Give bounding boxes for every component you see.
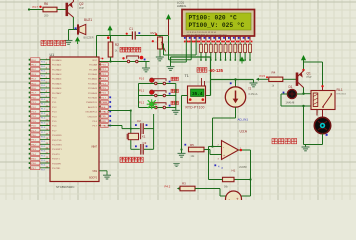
fan motor — [314, 117, 330, 133]
ground RV1 — [156, 57, 164, 61]
svg-text:P1.7: P1.7 — [52, 130, 57, 132]
svg-text:P1.4: P1.4 — [31, 116, 36, 118]
svg-text:P1.5: P1.5 — [52, 121, 57, 123]
svg-text:P1.5: P1.5 — [31, 121, 36, 123]
svg-text:Q2: Q2 — [79, 2, 84, 6]
wire XTAL2 to crystal rail — [108, 125, 122, 127]
U1 AT89C52 body — [50, 57, 99, 182]
power arrow VCC reset rail — [107, 25, 112, 30]
buttons right rail — [175, 84, 177, 111]
wire VCC down to rail — [168, 19, 170, 36]
probe left of D1 — [283, 92, 285, 94]
svg-text:P1.4: P1.4 — [52, 116, 57, 118]
wire T1 right leg — [206, 95, 211, 97]
svg-text:P0.4: P0.4 — [41, 80, 45, 82]
relay top pin — [322, 87, 324, 91]
svg-text:P0.5: P0.5 — [31, 83, 36, 85]
probe near R5 — [184, 144, 186, 146]
U1 left pins with net labels — [29, 58, 63, 172]
svg-text:P0.1: P0.1 — [41, 66, 45, 68]
svg-text:P0.4: P0.4 — [31, 79, 36, 81]
svg-text:P3.4: P3.4 — [41, 155, 45, 157]
svg-text:P0.5/AD5: P0.5/AD5 — [52, 82, 62, 85]
svg-text:P1.3: P1.3 — [31, 112, 36, 114]
svg-text:VBAT: VBAT — [91, 146, 97, 149]
svg-text:P0.6/AD6: P0.6/AD6 — [52, 87, 62, 90]
svg-text:I1: I1 — [249, 86, 252, 90]
svg-text:P3.6: P3.6 — [93, 121, 98, 123]
svg-text:P2.2: P2.2 — [101, 74, 106, 76]
svg-text:P0.3: P0.3 — [41, 75, 45, 77]
svg-text:P2.5/A13: P2.5/A13 — [88, 87, 98, 90]
svg-text:P0.7/AD7: P0.7/AD7 — [52, 92, 62, 95]
svg-text:STC89C51RC: STC89C51RC — [56, 185, 74, 189]
svg-text:ALE: ALE — [101, 106, 106, 109]
voltage probe dots on reset row — [102, 58, 104, 60]
wire T1 left leg down to R5 — [182, 95, 188, 97]
svg-text:XTAL2: XTAL2 — [101, 125, 108, 128]
ground buttons — [172, 110, 180, 114]
svg-text:U3:A: U3:A — [240, 130, 248, 134]
svg-text:P0.7: P0.7 — [41, 94, 45, 96]
svg-text:P3.7: P3.7 — [33, 5, 39, 9]
svg-text:P2.7: P2.7 — [101, 97, 106, 99]
svg-text:BUZ1: BUZ1 — [84, 18, 92, 22]
resistor R6 — [43, 7, 57, 12]
svg-text:P3.1/TXD: P3.1/TXD — [52, 140, 62, 142]
svg-text:D1: D1 — [289, 85, 293, 89]
svg-text:TXD: TXD — [101, 116, 106, 118]
voltage probe above R2 — [107, 36, 110, 39]
U1 right pins with net label boxes — [85, 58, 111, 128]
wire VCC to Q1 emitter — [303, 60, 305, 71]
svg-text:PSEN: PSEN — [101, 102, 107, 104]
svg-text:P2.0: P2.0 — [101, 65, 106, 67]
svg-text:P3.4: P3.4 — [31, 154, 36, 156]
svg-text:P0.6: P0.6 — [41, 90, 45, 92]
svg-text:P2.2/A10: P2.2/A10 — [88, 73, 98, 76]
wire fan bottom — [322, 134, 324, 145]
svg-text:P3.6: P3.6 — [31, 163, 36, 165]
svg-text:P1.3: P1.3 — [52, 112, 57, 114]
svg-text:XTAL1: XTAL1 — [101, 111, 108, 114]
svg-text:P3.5: P3.5 — [41, 160, 45, 162]
temperature range label (red) — [197, 68, 207, 73]
ground relay/fan — [305, 145, 307, 147]
svg-text:T1: T1 — [185, 74, 189, 78]
svg-text:P1.7: P1.7 — [41, 132, 45, 134]
pot RV1 — [159, 36, 161, 38]
current source I1 — [235, 80, 237, 87]
crystal right rail — [153, 114, 155, 149]
push button reset — [127, 56, 139, 63]
net arrow P4.5 wire — [256, 78, 259, 81]
svg-text:P0.2: P0.2 — [41, 71, 45, 73]
resistor H1 feedback — [234, 179, 251, 181]
svg-text:RTD-PT100: RTD-PT100 — [186, 106, 205, 110]
svg-text:P1.6: P1.6 — [31, 126, 36, 128]
green highlight cross on row 3 — [147, 99, 157, 109]
svg-text:PNP: PNP — [307, 76, 312, 79]
wire Q2 emitter up — [72, 0, 74, 2]
svg-text:200: 200 — [44, 14, 49, 18]
wire Q2 collector down to buzzer — [72, 17, 74, 30]
svg-text:P0.3: P0.3 — [31, 74, 36, 76]
svg-text:P1.1: P1.1 — [31, 102, 36, 104]
svg-text:P3.3: P3.3 — [41, 151, 45, 153]
svg-text:LM358: LM358 — [239, 165, 247, 169]
svg-text:P3.0/RXD: P3.0/RXD — [52, 135, 62, 137]
wire LCD VEE to RV1 wiper — [195, 41, 197, 55]
svg-text:P0.2/AD2: P0.2/AD2 — [52, 68, 62, 71]
logic probe on rail — [230, 82, 232, 84]
svg-text:+: + — [223, 154, 225, 158]
svg-text:P3.3: P3.3 — [31, 149, 36, 151]
svg-text:P0.0: P0.0 — [31, 60, 36, 62]
op-amp U3:A — [222, 141, 239, 160]
wire sensor top rail — [171, 56, 211, 58]
wire feedback vertical — [250, 150, 252, 196]
svg-text:BUZZER: BUZZER — [84, 36, 94, 39]
svg-text:P2.1: P2.1 — [101, 69, 106, 71]
svg-text:P3.4/T0: P3.4/T0 — [52, 154, 60, 156]
svg-text:U1: U1 — [50, 53, 55, 57]
ground under T1 leg — [178, 153, 186, 157]
svg-text:R5: R5 — [190, 143, 194, 147]
svg-text:P2.5: P2.5 — [101, 88, 106, 90]
svg-text:+: + — [236, 197, 239, 201]
relay RL1 — [311, 91, 335, 110]
svg-text:BOOT0: BOOT0 — [89, 177, 98, 179]
svg-text:P1.1: P1.1 — [139, 90, 145, 93]
crystal left rail — [130, 111, 132, 150]
svg-text:-60-135: -60-135 — [209, 68, 224, 73]
LCD screen — [186, 13, 251, 30]
capacitor C1 — [131, 31, 133, 39]
svg-text:P2.3/A11: P2.3/A11 — [88, 78, 98, 81]
resistor R4 — [269, 77, 283, 81]
svg-text:P1.2: P1.2 — [31, 107, 36, 109]
transistor Q2 — [66, 2, 73, 18]
node P3.7 wire start — [28, 8, 30, 10]
resistor R5 — [189, 147, 205, 152]
crystal X1 — [128, 133, 138, 139]
svg-text:P1.2: P1.2 — [139, 102, 145, 105]
svg-text:P3.5/T1: P3.5/T1 — [52, 159, 60, 161]
ground for buzzer — [65, 41, 73, 45]
svg-text:P0.3/AD3: P0.3/AD3 — [52, 73, 62, 76]
svg-text:H1: H1 — [232, 169, 236, 173]
wire op-amp inverting input — [209, 146, 222, 148]
transistor Q1 — [296, 71, 303, 88]
svg-text:OSCIN/PC2: OSCIN/PC2 — [85, 112, 98, 114]
svg-text:P2.6: P2.6 — [101, 93, 106, 95]
svg-text:0.25mA: 0.25mA — [249, 92, 258, 96]
key button row 1 — [139, 83, 176, 85]
svg-text:P3.7/RD: P3.7/RD — [52, 168, 61, 170]
logic probe on C1 right — [138, 32, 140, 34]
logic probe marker on buzzer — [75, 27, 77, 29]
svg-text:P1.0: P1.0 — [52, 98, 57, 100]
svg-text:P1.6: P1.6 — [41, 127, 45, 129]
svg-text:LM016L: LM016L — [177, 4, 187, 8]
svg-text:P2.4/A12: P2.4/A12 — [88, 82, 98, 85]
svg-text:P4.2: P4.2 — [165, 185, 171, 189]
svg-text:P0.6: P0.6 — [31, 88, 36, 90]
wire I1 output down and to op-amp — [235, 107, 237, 118]
svg-text:R4: R4 — [272, 71, 276, 75]
svg-text:P2.3: P2.3 — [101, 79, 106, 81]
svg-text:P1.1: P1.1 — [41, 104, 45, 106]
wire D1 anode loop — [281, 93, 287, 95]
wire VCC branch to relay contact — [304, 61, 323, 63]
ground current source rail — [253, 80, 255, 83]
wire R3 to V1 — [195, 188, 220, 190]
svg-text:P2.1/A9: P2.1/A9 — [89, 68, 98, 71]
svg-text:P3.3/INT1: P3.3/INT1 — [52, 149, 63, 151]
svg-text:1N4148: 1N4148 — [286, 101, 295, 104]
svg-text:RL1: RL1 — [337, 88, 343, 92]
svg-text:P2.4: P2.4 — [101, 83, 106, 85]
svg-text:AD_IN1: AD_IN1 — [238, 118, 249, 122]
svg-text:C1: C1 — [129, 27, 133, 31]
op-amp output wire — [239, 149, 251, 151]
wire op-amp non-inverting input — [210, 154, 222, 156]
wire Q1 collector to coil node — [303, 88, 305, 94]
wire reset row — [110, 57, 112, 62]
power arrow VCC relay — [301, 55, 306, 60]
svg-text:P1.0: P1.0 — [31, 97, 36, 99]
svg-text:P3.1: P3.1 — [41, 141, 45, 143]
wire D1 cathode — [297, 93, 304, 95]
svg-text:P2.6/A14: P2.6/A14 — [88, 92, 98, 95]
wire V1 right to feedback — [242, 195, 251, 197]
wire rail down to PT100/current source — [210, 57, 212, 96]
voltage probe on R6 input — [39, 6, 41, 8]
module label: reset circuit (red CJK) — [120, 47, 141, 52]
svg-text:C2: C2 — [137, 119, 141, 123]
svg-text:P1.2: P1.2 — [52, 107, 57, 109]
svg-text:35.4: 35.4 — [192, 92, 203, 97]
wire EA tie down to U1 — [96, 36, 98, 58]
svg-text:P0.5: P0.5 — [41, 85, 45, 87]
wire R5 to +input — [204, 149, 210, 151]
op-amp power pin markers — [214, 164, 216, 166]
voltage probe on C1 left — [126, 33, 128, 35]
svg-text:P3.0: P3.0 — [31, 135, 36, 137]
svg-text:P3.7: P3.7 — [41, 169, 45, 171]
net arrow P4.2 — [177, 187, 180, 190]
svg-text:P3.2: P3.2 — [41, 146, 45, 148]
svg-text:P1.3: P1.3 — [41, 113, 45, 115]
svg-text:LCD1: LCD1 — [177, 1, 185, 5]
svg-text:VSS: VSS — [92, 171, 97, 173]
svg-text:P0.2: P0.2 — [31, 69, 36, 71]
buttons left rail — [138, 84, 140, 108]
relay bottom pins — [316, 110, 318, 116]
power arrow near I1 — [239, 56, 244, 61]
probe under fan — [326, 134, 328, 136]
svg-text:P1.0: P1.0 — [41, 99, 45, 101]
ground reset — [145, 62, 147, 68]
power arrow near buzzer ground — [75, 37, 80, 42]
svg-text:P3.0: P3.0 — [41, 137, 45, 139]
wire LCD VDD to VCC — [190, 41, 192, 60]
resistor R2 — [110, 36, 112, 43]
svg-text:P0.4/AD4: P0.4/AD4 — [52, 78, 62, 81]
wire XTAL1 to crystal rail — [108, 110, 131, 112]
wire LCD VSS to ground — [185, 41, 187, 62]
probe on reset button — [140, 56, 144, 60]
module label: cooling module (red CJK) — [272, 139, 297, 144]
wire R6 to Q2 base — [57, 9, 66, 11]
svg-text:RXD: RXD — [101, 121, 106, 123]
LCD LM016L body — [182, 10, 255, 37]
svg-text:RST: RST — [93, 60, 98, 62]
svg-text:P0.0: P0.0 — [41, 61, 45, 63]
svg-text:P2.7/A15: P2.7/A15 — [88, 97, 98, 100]
wire buzzer branch down — [68, 30, 70, 41]
wire excitation rail — [211, 79, 254, 81]
key button row 3 — [139, 107, 176, 109]
module label: crystal circuit (red CJK) — [120, 157, 143, 162]
probes near RV1 — [155, 33, 157, 35]
svg-text:P1.6: P1.6 — [52, 126, 57, 128]
svg-text:PNP: PNP — [79, 7, 84, 10]
svg-text:P0.7: P0.7 — [31, 93, 36, 95]
svg-text:P1.0: P1.0 — [139, 78, 145, 81]
svg-text:P3.1: P3.1 — [31, 140, 36, 142]
svg-text:P1.7: P1.7 — [31, 130, 36, 132]
module label: alarm module (red CJK text) — [41, 40, 66, 45]
wire feedback to inverting input — [209, 179, 223, 181]
key button row 2 — [139, 95, 176, 97]
svg-text:P0.0/AD0: P0.0/AD0 — [52, 59, 62, 62]
wire RV1 to ground — [159, 49, 161, 57]
svg-text:P3.7: P3.7 — [93, 126, 98, 128]
svg-text:PT100_V: 025 °C: PT100_V: 025 °C — [189, 22, 245, 29]
svg-text:P3.7: P3.7 — [31, 168, 36, 170]
svg-text:P1.5: P1.5 — [41, 122, 45, 124]
power arrow LCD VCC — [166, 14, 171, 19]
buzzer BUZ1 — [77, 24, 79, 34]
small ground lower — [173, 164, 179, 167]
svg-text:X1: X1 — [142, 135, 146, 139]
T1 terminals — [189, 98, 192, 101]
svg-text:P2.0/A8: P2.0/A8 — [89, 64, 98, 67]
svg-text:P1.2: P1.2 — [41, 108, 45, 110]
wire coil bottom down — [303, 106, 305, 145]
svg-text:P0.1/AD1: P0.1/AD1 — [52, 64, 62, 67]
svg-text:P3.6/WR: P3.6/WR — [52, 163, 61, 165]
svg-text:P3.5: P3.5 — [31, 159, 36, 161]
svg-text:R2: R2 — [115, 43, 119, 47]
svg-text:Q1: Q1 — [307, 71, 311, 75]
svg-text:P3.6: P3.6 — [41, 165, 45, 167]
svg-text:P1.1: P1.1 — [52, 102, 57, 104]
T1 top stubs — [201, 78, 203, 86]
svg-text:P4.5: P4.5 — [260, 74, 266, 78]
svg-text:PT100: 020 °C: PT100: 020 °C — [189, 14, 238, 21]
svg-text:P0.1: P0.1 — [31, 65, 36, 67]
ground LCD VSS — [170, 62, 172, 66]
svg-text:R6: R6 — [44, 2, 48, 6]
LCD pins with probe markers — [184, 36, 253, 42]
voltage probe before R4 — [266, 76, 268, 78]
resistor pack on LCD data lines — [200, 42, 252, 60]
svg-text:OSCOUT: OSCOUT — [88, 116, 98, 118]
svg-text:R3: R3 — [182, 181, 186, 185]
svg-text:ALE/PC1: ALE/PC1 — [88, 106, 98, 109]
wire VCC rail horizontal — [97, 35, 132, 37]
svg-text:PSEN/PC0: PSEN/PC0 — [86, 102, 98, 104]
resistor R3 — [180, 186, 195, 191]
wire R4 to Q1 base — [283, 78, 296, 80]
svg-text:RTE24005: RTE24005 — [337, 94, 347, 96]
svg-text:P3.2/INT0: P3.2/INT0 — [52, 145, 63, 147]
svg-text:P3.2: P3.2 — [31, 144, 36, 146]
RTD sensor T1 body — [188, 86, 206, 103]
svg-text:P1.4: P1.4 — [41, 118, 45, 120]
